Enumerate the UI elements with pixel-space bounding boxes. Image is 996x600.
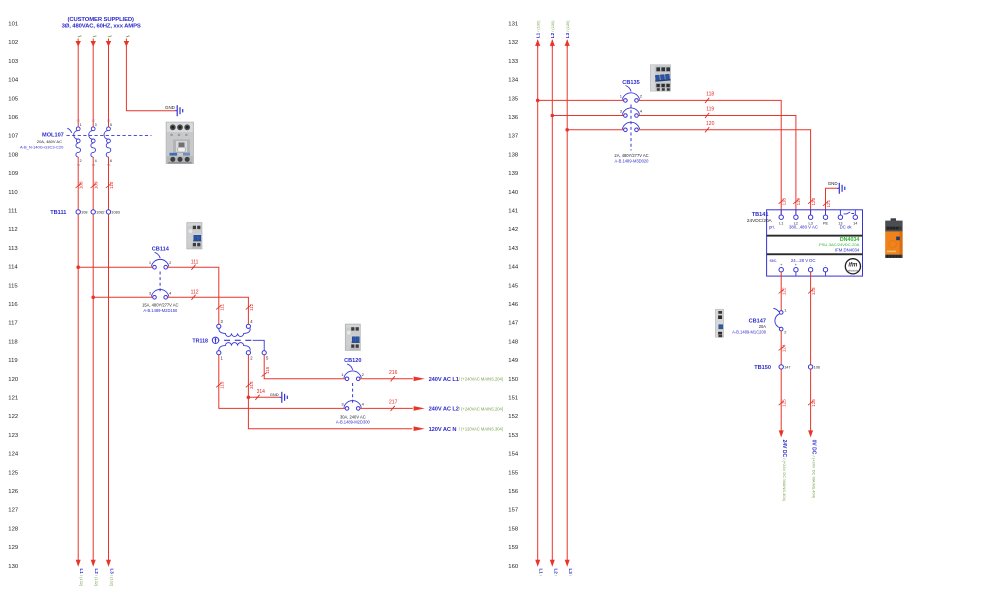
svg-text:MOL107: MOL107 [42,133,64,139]
svg-text:124: 124 [782,344,787,352]
svg-text:GND: GND [270,392,279,397]
svg-text:107: 107 [8,134,18,140]
svg-text:1: 1 [80,123,82,127]
svg-text:/ (+240VAC MAINS.204): / (+240VAC MAINS.204) [459,406,504,411]
svg-text:/ (+120VAC MAINS.304): / (+120VAC MAINS.304) [459,427,504,432]
incoming supply arrow L3 feed [106,36,112,47]
incoming supply arrow GND feed [124,36,130,47]
wire L1 phase from feed to MOL107 pole 1 [77,46,79,127]
svg-text:106: 106 [8,115,19,121]
svg-text:151: 151 [508,396,518,402]
sheet exit arrow L2 bottom right [550,560,555,567]
svg-text:131: 131 [508,22,518,28]
svg-text:111: 111 [8,209,17,215]
CB120 mechanical link [352,383,354,405]
svg-text:L2: L2 [92,118,96,122]
wire number 120 (vertical) [808,197,816,205]
svg-text:153: 153 [508,433,519,439]
svg-text:128: 128 [8,526,19,532]
circuit breaker CB114 pole 1 (pins 1-2) [149,259,172,269]
circuit breaker CB120 pole 1 (pins 1-2) [341,371,364,381]
svg-text:1082: 1082 [96,211,104,215]
svg-text:A-B.1489-M2D150: A-B.1489-M2D150 [143,308,178,313]
ladder rung number column right (131-160) [508,22,519,570]
svg-text:5: 5 [110,123,112,127]
wire 123 TB141 - to TB150 [810,272,812,365]
wire number 111 (horizontal) [191,259,199,269]
title note: customer supplied feed [62,17,141,30]
svg-text:PE: PE [823,222,829,226]
svg-text:314: 314 [249,381,254,389]
svg-text:24...28 V DC: 24...28 V DC [791,258,816,263]
svg-text:112: 112 [249,303,254,311]
svg-text:CB120: CB120 [344,358,361,364]
ifm logo [845,259,860,274]
svg-text:L2 / (132): L2 / (132) [94,569,99,587]
svg-text:122: 122 [8,414,18,420]
wire number 216 [389,370,398,382]
node junction L2 to CB135 [551,114,555,118]
svg-text:TR118: TR118 [192,338,208,344]
svg-text:pri.: pri. [769,225,775,230]
node junction L1 to CB135 [536,99,540,103]
wire number 119 (horizontal) [705,107,714,119]
svg-text:133: 133 [508,59,519,65]
svg-text:139: 139 [508,171,518,177]
CB120 breaker photo [345,324,360,351]
sheet exit arrow L3 bottom left [106,560,111,567]
svg-text:A-B_N-140G-G3C3-C20: A-B_N-140G-G3C3-C20 [20,145,64,150]
wire 108 MOL107 to TB111 [77,157,79,212]
svg-text:L2 / (130): L2 / (130) [550,20,555,38]
svg-text:134: 134 [508,78,519,84]
svg-text:CB135: CB135 [622,80,639,86]
TB141 top terminals L1 L2 L3 PE 13 14 [779,210,858,226]
svg-text:electronic: electronic [848,269,859,272]
svg-text:2A, 480Y/277V AC: 2A, 480Y/277V AC [614,153,648,158]
svg-text:109: 109 [8,171,18,177]
circuit breaker CB135 pole 1 (pins 1-2) [620,93,643,102]
svg-text:L1 / (132): L1 / (132) [79,569,84,587]
svg-text:110: 110 [8,190,18,196]
CB114 breaker photo [187,223,202,250]
svg-text:20A: 20A [759,324,767,329]
svg-text:CB114: CB114 [152,247,170,253]
svg-text:101: 101 [8,22,18,28]
wire number 108 [76,181,84,189]
svg-text:138: 138 [508,152,519,158]
svg-text:112: 112 [8,227,17,233]
wire 115 TR118 pin 5 to CB120 pin 1 [264,355,345,379]
svg-text:119: 119 [706,107,714,113]
wire number 122 [779,287,787,295]
svg-text:111: 111 [191,259,199,265]
ground symbol top left (GND) [165,105,183,116]
svg-text:114: 114 [8,265,18,271]
svg-text:1083: 1083 [111,211,119,215]
CB120 handle [347,364,353,370]
svg-text:142: 142 [508,227,518,233]
svg-text:115: 115 [265,366,270,374]
svg-text:136: 136 [508,115,519,121]
svg-text:(CUSTOMER SUPPLIED): (CUSTOMER SUPPLIED) [68,17,134,23]
svg-text:120: 120 [8,377,19,383]
TB141 DC-ok contact between 13 and 14 [844,212,854,214]
circuit breaker CB114 pole 2 (pins 3-4) [149,289,172,299]
wire 240V AC L1 output [360,378,413,380]
incoming supply arrow L1 feed [76,36,82,47]
svg-text:L1 / (130): L1 / (130) [536,20,541,38]
wire L3 TB111 down to sheet exit [108,214,110,560]
wire 118 CB135 to TB141 [638,100,781,215]
svg-text:159: 159 [508,545,518,551]
wire number 115 [262,366,270,376]
svg-text:121: 121 [826,199,831,207]
svg-text:126: 126 [8,489,19,495]
wire L3 phase from feed to MOL107 pole 3 [108,46,110,127]
svg-text:121: 121 [8,396,18,402]
svg-text:/ (+240VAC MAINS.204): / (+240VAC MAINS.204) [459,377,504,382]
svg-text:116: 116 [8,302,18,308]
svg-text:145: 145 [508,283,519,289]
wire 109 MOL107 to TB111 [92,157,94,212]
svg-text:156: 156 [508,489,519,495]
svg-text:155: 155 [508,470,519,476]
svg-text:157: 157 [508,508,518,514]
wire number 126 [808,399,816,407]
svg-text:150: 150 [508,377,519,383]
ladder rung number column left (101-130) [8,22,19,570]
svg-text:TB150: TB150 [754,365,771,371]
svg-text:240V AC L1: 240V AC L1 [429,377,459,383]
MOL107 molded case breaker photo [166,122,194,164]
wire 314 TR118 pin 2 neutral down [248,355,412,429]
wire number 111 (vertical) [216,303,224,310]
svg-text:125: 125 [782,399,787,407]
motor overload MOL107 [67,118,152,167]
wire number 120 (horizontal) [705,121,715,133]
wire L3 right column top to bottom [566,46,568,561]
wire number 119 (vertical) [793,198,801,206]
svg-text:108: 108 [8,152,19,158]
TB141 bottom terminals + + - - [779,263,828,276]
wire number 109 [91,181,99,189]
node junction neutral to ground [247,396,251,400]
svg-text:14: 14 [853,222,857,226]
sheet exit arrow 120V AC N [414,426,425,431]
sheet exit arrow 0V DC [808,430,813,437]
wire 120 CB135 to TB141 [638,130,810,215]
ground symbol at TB141 PE (GND) [828,181,845,194]
svg-text:126: 126 [811,399,816,407]
circuit breaker CB120 pole 2 (pins 3-4) [341,401,364,411]
svg-text:240V AC L2: 240V AC L2 [429,407,459,413]
wire number 112 (vertical) [246,303,254,311]
svg-text:129: 129 [8,545,18,551]
svg-text:111: 111 [219,303,224,310]
svg-text:216: 216 [389,370,398,376]
svg-text:IFM.DN4034: IFM.DN4034 [835,248,860,253]
svg-text:124: 124 [8,452,19,458]
svg-text:154: 154 [508,452,519,458]
sheet exit arrow L1 bottom left [76,560,81,567]
svg-text:A-B.1489-M2D300: A-B.1489-M2D300 [336,420,371,425]
wire 113 TR118 pin 1 to CB120 pin 3 [219,355,345,409]
svg-text:135: 135 [508,96,519,102]
svg-text:108: 108 [81,211,87,215]
CB147 breaker photo (1 pole) [715,309,723,337]
wire 240V AC L2 output [360,407,413,409]
DN4034 power supply photo [885,218,902,258]
wire number 118 (vertical) [779,198,787,206]
wire 122 TB141 + to CB147 pin 1 [780,272,782,310]
svg-text:122: 122 [782,287,787,295]
svg-text:L1: L1 [77,118,81,122]
wire 110 MOL107 to TB111 [108,157,110,212]
sheet entry arrow L1 top right [535,39,540,46]
svg-text:147: 147 [784,366,790,370]
svg-text:L3 /: L3 / [568,569,573,577]
svg-text:147: 147 [508,321,518,327]
svg-text:103: 103 [8,59,19,65]
wire 112 CB114 pin 4 to TR118 pin 4 [168,297,249,324]
sheet exit arrow L1 bottom right [535,560,540,567]
svg-text:380...480 V AC: 380...480 V AC [789,225,818,230]
svg-text:127: 127 [8,508,18,514]
svg-text:119: 119 [796,198,801,206]
transformer TR118 [214,319,270,360]
svg-text:148: 148 [508,339,519,345]
svg-text:A-B.1489-M1C200: A-B.1489-M1C200 [732,330,767,335]
svg-text:30A, 240V AC: 30A, 240V AC [340,414,366,419]
svg-text:132: 132 [508,40,518,46]
wire L1 TB111 down to sheet exit [77,214,79,560]
wire 125 TB150 to 24V DC exit [780,369,782,430]
circuit breaker CB135 pole 2 (pins 3-4) [620,108,643,117]
incoming supply arrow L2 feed [91,36,97,47]
wire 126 TB150 to 0V DC exit [810,369,812,430]
svg-text:PSU-3AC/24VDC-20A: PSU-3AC/24VDC-20A [819,242,860,247]
svg-text:152: 152 [508,414,518,420]
svg-text:137: 137 [508,134,518,140]
sheet exit arrow 240V AC L2 [414,406,425,411]
svg-text:160: 160 [508,564,519,570]
svg-text:L1 /: L1 / [539,569,544,577]
sheet entry arrow L2 top right [550,39,555,46]
svg-text:140: 140 [508,190,519,196]
wire L2 right column top to bottom [551,46,553,561]
wire number 113 [216,381,224,389]
terminal block TB111 [76,210,120,215]
sheet exit arrow 240V AC L1 [414,377,425,382]
svg-text:sec.: sec. [770,258,778,263]
svg-text:118: 118 [706,91,714,97]
svg-text:102: 102 [8,40,18,46]
wire L1 tap to CB114 pin 1 [78,266,153,268]
svg-text:217: 217 [389,399,398,405]
sheet exit arrow L3 bottom right [565,560,570,567]
sheet exit arrow 24V DC [779,430,784,437]
svg-text:314: 314 [257,389,266,395]
CB147 handle [773,308,779,312]
svg-text:130: 130 [8,564,19,570]
svg-text:106: 106 [814,366,820,370]
node junction L2 to CB114 [91,296,95,300]
wire number 314 (vertical) [246,381,254,389]
svg-text:117: 117 [8,321,17,327]
svg-text:113: 113 [8,246,18,252]
power supply TB141 outline [767,210,863,276]
wire GND feed drop to earth [126,46,174,111]
svg-text:L3 / (130): L3 / (130) [565,20,570,38]
svg-text:3: 3 [95,123,97,127]
svg-text:119: 119 [8,358,17,364]
ground symbol secondary neutral (GND) [270,392,288,403]
svg-text:120: 120 [706,121,715,127]
wire 121 PE to ground [826,188,837,215]
svg-text:105: 105 [8,96,19,102]
svg-text:104: 104 [8,78,19,84]
svg-text:118: 118 [782,198,787,206]
wire number 217 [389,399,398,411]
svg-text:123: 123 [811,287,816,295]
svg-text:GND: GND [828,181,838,186]
CB135 handle [626,86,632,92]
wire number 118 (horizontal) [705,91,714,103]
wire L3 tap to CB135 pole 3 [567,129,624,131]
svg-text:L1: L1 [779,222,783,226]
svg-text:3Ø, 480VAC, 60HZ, xxx AMPS: 3Ø, 480VAC, 60HZ, xxx AMPS [62,24,141,30]
svg-text:158: 158 [508,526,519,532]
node junction L1 to CB114 [76,265,80,269]
svg-text:146: 146 [508,302,519,308]
wire number 110 [106,181,114,189]
circuit breaker CB147 (pins 1-2) [775,307,787,334]
svg-text:144: 144 [508,265,519,271]
CB135 breaker photo (3 pole) [650,65,671,92]
circuit breaker CB135 pole 3 [622,122,639,131]
svg-text:20A, 480V AC: 20A, 480V AC [37,139,62,144]
CB114 mechanical link [159,272,161,294]
svg-text:15A, 480Y/277V AC: 15A, 480Y/277V AC [142,303,178,308]
sheet exit arrow L2 bottom left [91,560,96,567]
svg-text:ifm: ifm [848,262,858,268]
svg-text:115: 115 [8,283,18,289]
CB135 mechanical link [630,105,632,151]
wire L1 right column top to bottom [537,46,539,561]
svg-text:GND: GND [165,105,175,110]
CB114 handle [155,252,161,258]
svg-text:DC ok: DC ok [840,225,853,230]
terminal block TB150 [779,365,820,370]
node junction L3 to CB135 [565,128,569,132]
wire number 121 [823,199,831,207]
svg-text:141: 141 [508,209,518,215]
svg-text:L2 /: L2 / [553,569,558,577]
svg-text:24VDC/20A: 24VDC/20A [747,218,773,223]
svg-text:125: 125 [8,470,19,476]
wire number 314 (branch) [255,389,265,400]
svg-text:113: 113 [219,381,224,389]
wire 124 CB147 to TB150 [780,331,782,365]
wire L1 tap to CB135 pole 1 [538,99,624,101]
sheet entry arrow L3 top right [565,39,570,46]
wire number 125 [779,399,787,407]
wire 119 CB135 to TB141 [638,116,796,216]
svg-text:120V AC N: 120V AC N [429,427,457,433]
wire L2 tap to CB135 pole 2 [552,115,623,117]
svg-text:112: 112 [191,290,199,296]
svg-text:120: 120 [811,197,816,205]
wire 111 CB114 pin 2 to TR118 pin 3 [168,267,219,324]
wire L2 TB111 down to sheet exit [92,214,94,560]
TB141 section divider bars [767,235,863,237]
wire number 124 [779,344,787,352]
wire L2 phase from feed to MOL107 pole 2 [92,46,94,127]
svg-text:149: 149 [508,358,518,364]
svg-text:A-B.1489-M3D020: A-B.1489-M3D020 [615,158,650,163]
svg-text:123: 123 [8,433,19,439]
wire neutral ground branch [248,396,279,398]
TR118 core/ground marker [212,337,218,343]
wire number 112 (horizontal) [191,290,199,300]
wire L2 tap to CB114 pin 3 [93,296,153,298]
svg-text:118: 118 [8,339,18,345]
svg-text:TB111: TB111 [50,210,66,216]
svg-text:L3: L3 [107,118,111,122]
wire number 123 [808,287,816,295]
svg-text:143: 143 [508,246,519,252]
svg-text:L3 / (132): L3 / (132) [110,569,115,587]
